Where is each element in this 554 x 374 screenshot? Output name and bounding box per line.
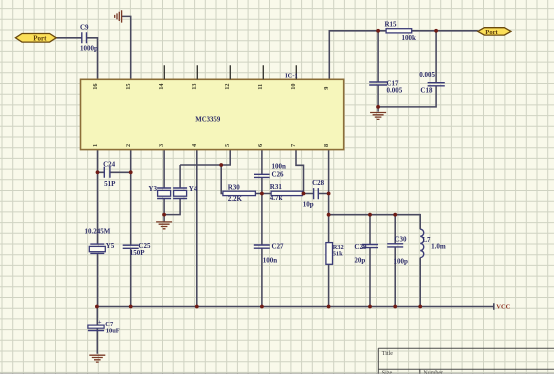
svg-text:IC-1: IC-1 bbox=[285, 73, 298, 80]
svg-text:4.7k: 4.7k bbox=[270, 194, 283, 202]
svg-text:13: 13 bbox=[191, 84, 198, 90]
svg-text:R30: R30 bbox=[228, 183, 241, 191]
svg-text:C30: C30 bbox=[394, 236, 407, 244]
svg-text:51P: 51P bbox=[104, 180, 116, 188]
svg-text:Y5: Y5 bbox=[106, 242, 115, 250]
svg-text:10p: 10p bbox=[303, 201, 314, 209]
svg-text:3: 3 bbox=[158, 144, 165, 147]
svg-text:R31: R31 bbox=[270, 183, 283, 191]
svg-text:100k: 100k bbox=[402, 34, 417, 42]
svg-text:Title: Title bbox=[382, 351, 393, 357]
svg-text:Port: Port bbox=[33, 34, 47, 42]
svg-text:16: 16 bbox=[92, 84, 99, 90]
svg-text:MC3359: MC3359 bbox=[195, 116, 221, 123]
svg-text:1000p: 1000p bbox=[80, 44, 98, 52]
svg-text:100n: 100n bbox=[272, 163, 287, 171]
svg-text:6: 6 bbox=[257, 144, 264, 147]
svg-text:R15: R15 bbox=[385, 21, 398, 29]
svg-text:C27: C27 bbox=[272, 242, 285, 250]
svg-text:0.005: 0.005 bbox=[419, 71, 435, 79]
svg-text:10uF: 10uF bbox=[106, 328, 120, 335]
svg-text:20p: 20p bbox=[354, 256, 365, 264]
svg-text:0.005: 0.005 bbox=[387, 87, 403, 95]
svg-text:9: 9 bbox=[323, 87, 330, 90]
svg-text:C18: C18 bbox=[420, 87, 433, 95]
svg-text:7: 7 bbox=[290, 144, 297, 147]
svg-text:14: 14 bbox=[158, 83, 165, 90]
svg-text:51k: 51k bbox=[333, 250, 343, 257]
svg-text:10.245M: 10.245M bbox=[85, 227, 111, 235]
svg-text:C24: C24 bbox=[103, 160, 116, 168]
svg-text:8: 8 bbox=[323, 144, 330, 147]
svg-text:+: + bbox=[98, 319, 102, 326]
svg-text:1: 1 bbox=[92, 144, 99, 147]
svg-text:VCC: VCC bbox=[496, 304, 510, 311]
svg-text:10: 10 bbox=[290, 84, 297, 90]
svg-text:11: 11 bbox=[257, 84, 264, 90]
svg-text:15: 15 bbox=[125, 84, 132, 90]
svg-text:C9: C9 bbox=[80, 24, 89, 32]
svg-text:2: 2 bbox=[125, 144, 132, 147]
svg-text:100n: 100n bbox=[263, 257, 278, 265]
svg-text:C26: C26 bbox=[272, 171, 285, 179]
svg-text:C28: C28 bbox=[312, 179, 325, 187]
svg-text:5: 5 bbox=[224, 144, 231, 147]
svg-text:100p: 100p bbox=[394, 257, 409, 265]
svg-text:2.2K: 2.2K bbox=[228, 195, 243, 203]
svg-text:Y3: Y3 bbox=[148, 185, 157, 193]
svg-text:C29: C29 bbox=[354, 243, 367, 251]
svg-text:150P: 150P bbox=[130, 249, 146, 257]
svg-text:12: 12 bbox=[224, 84, 231, 90]
svg-text:1.0m: 1.0m bbox=[431, 242, 446, 250]
svg-text:Y4: Y4 bbox=[189, 185, 198, 193]
svg-text:Port: Port bbox=[485, 29, 498, 36]
svg-text:L7: L7 bbox=[422, 236, 431, 244]
